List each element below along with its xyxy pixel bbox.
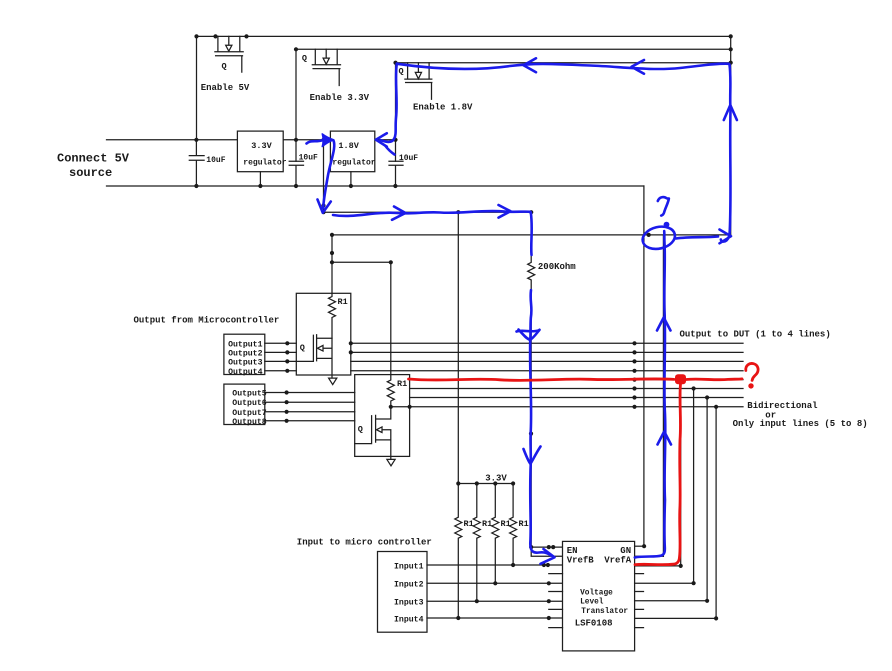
pin stubs U3 left: [549, 574, 563, 628]
node upper block edge junctions: [349, 341, 353, 345]
svg-text:Bidirectional: Bidirectional: [747, 401, 818, 411]
wire output8 line left: [265, 420, 355, 422]
wire line5 right: [410, 379, 743, 381]
svg-text:regulator: regulator: [332, 159, 375, 168]
resistor R1 pullup b: [473, 484, 480, 602]
svg-text:10uF: 10uF: [299, 153, 318, 162]
wire line5 drop: [680, 380, 682, 566]
wire output6 line left: [265, 401, 355, 403]
svg-text:regulator: regulator: [243, 159, 286, 168]
wire node row y=235: [332, 234, 731, 236]
wire output4 line right to DUT: [351, 370, 743, 372]
wire rail3 drop to cap C3: [395, 63, 397, 162]
svg-text:Output1: Output1: [228, 340, 262, 349]
pin stubs U3 right: [635, 574, 644, 628]
svg-text:Input to micro controller: Input to micro controller: [297, 538, 432, 548]
wire right vertical joining rails: [730, 36, 732, 235]
node row y=235 junctions: [330, 233, 334, 237]
annotation blue trace VrefA riser: [635, 231, 666, 558]
svg-text:Output to DUT (1 to 4 lines): Output to DUT (1 to 4 lines): [680, 330, 831, 340]
node GN junction: [642, 544, 646, 548]
wire rail1 (enable 5V net): [197, 35, 731, 37]
node 3.3V pullup rail junctions: [456, 481, 460, 485]
wire drop to R1 lower block: [390, 262, 392, 380]
svg-text:Voltage: Voltage: [580, 589, 613, 597]
node pullup-input junctions: [511, 563, 515, 567]
wire output1 line left: [265, 342, 297, 344]
svg-text:1.8V: 1.8V: [338, 141, 359, 151]
annotation blue trace down right side: [721, 65, 731, 242]
transistor Q1 pass FET: [215, 36, 243, 72]
resistor R1 pullup a: [455, 484, 462, 619]
wire 3.3V drop to node row: [323, 140, 325, 212]
ground symbol (lower block): [387, 459, 395, 465]
resistor R1 (upper block): [329, 293, 336, 338]
regulator U2 1.8V: [330, 131, 374, 172]
node EN junctions: [529, 545, 533, 549]
wire VrefA riser: [662, 235, 664, 556]
annotation blue trace enable1.8 drop and left arrow: [381, 64, 397, 142]
svg-text:Enable 1.8V: Enable 1.8V: [413, 103, 473, 113]
svg-text:source: source: [69, 166, 112, 180]
svg-text:LSF0108: LSF0108: [575, 618, 613, 628]
annotation blue trace along rail3: [397, 64, 729, 69]
annotation blue question mark: [658, 197, 669, 215]
box microcontroller inputs: [378, 552, 428, 633]
svg-text:R1: R1: [397, 379, 407, 389]
svg-text:Enable 3.3V: Enable 3.3V: [310, 93, 370, 103]
wire VrefA pin: [635, 555, 664, 557]
wire U3 right pin row3: [635, 565, 681, 567]
wire rail2 drop to cap C2: [295, 49, 297, 161]
svg-text:R1: R1: [519, 519, 529, 529]
svg-text:Input3: Input3: [394, 599, 424, 608]
wire output4 line left: [265, 370, 297, 372]
wire output3 line left: [265, 360, 297, 362]
wire 5V input rail: [107, 139, 238, 141]
wire rail3 (enable 1.8V net): [396, 62, 731, 64]
wire node drop x=332: [331, 235, 333, 297]
svg-text:Q: Q: [222, 62, 227, 72]
annotation red junction blob: [675, 374, 686, 384]
svg-text:Output4: Output4: [228, 368, 262, 377]
wire rail1 drop to 5V rail: [196, 36, 198, 139]
annotation red trace line5: [409, 379, 675, 381]
wire output5 line left: [265, 392, 355, 394]
node row y=212 junctions: [321, 203, 325, 207]
svg-text:10uF: 10uF: [399, 154, 418, 163]
wire rail2 (enable 3.3V net): [296, 48, 731, 50]
node 5V rail junctions: [194, 138, 198, 142]
wire line6 right: [410, 388, 743, 390]
node input pin junctions: [542, 563, 546, 567]
block box Q5/R1 lower: [355, 375, 410, 457]
svg-text:Output6: Output6: [232, 399, 266, 408]
svg-text:Q: Q: [300, 343, 305, 353]
wire reg1 output: [283, 139, 330, 141]
svg-text:Output7: Output7: [232, 409, 266, 418]
wire line8 drop: [715, 407, 717, 619]
wire node row y=212: [324, 211, 532, 213]
svg-text:VrefA: VrefA: [604, 556, 632, 566]
svg-text:Output8: Output8: [232, 418, 266, 427]
capacitor C2 10uF: [289, 161, 303, 186]
node output lines left junctions: [285, 341, 289, 345]
capacitor C3 10uF: [389, 161, 403, 186]
svg-text:Output2: Output2: [228, 349, 262, 358]
node line5-8 junctions: [632, 378, 636, 382]
wire input3: [427, 600, 563, 602]
svg-text:3.3V: 3.3V: [251, 141, 272, 151]
wire output1 line right to DUT: [351, 342, 743, 344]
svg-text:Only input lines (5 to 8): Only input lines (5 to 8): [733, 419, 868, 429]
wire U3 right pin row5: [635, 582, 694, 584]
wire output2 line left: [265, 351, 297, 353]
box microcontroller outputs 5-8: [224, 384, 265, 424]
wire input4: [427, 617, 563, 619]
node output5-8 left junctions: [285, 390, 289, 394]
transistor Q3 pass FET: [405, 63, 432, 99]
block box Q4/R1 upper: [296, 293, 351, 375]
annotation blue arrow reg1 to reg2: [307, 140, 323, 143]
wire output2 line right to DUT: [351, 351, 743, 353]
svg-text:Output from Microcontroller: Output from Microcontroller: [134, 316, 280, 326]
wire input2: [427, 582, 563, 584]
svg-text:R1: R1: [338, 297, 348, 307]
wire branch y=262: [332, 261, 391, 263]
svg-text:Output5: Output5: [232, 390, 266, 399]
svg-text:Input4: Input4: [394, 616, 424, 625]
wire line7 right: [410, 397, 743, 399]
annotation red trace drop to U3: [635, 384, 681, 565]
wire reg2 output: [375, 139, 396, 141]
transistor Q5 NMOS: [355, 407, 391, 460]
regulator U1 3.3V: [237, 131, 283, 172]
wire 3.3V pullup rail: [458, 483, 513, 485]
wire ground drop to GN: [643, 186, 645, 546]
annotation blue trace down 200K to VrefB: [529, 213, 533, 256]
transistor Q2 pass FET: [312, 49, 340, 85]
wire ground rail: [107, 185, 644, 187]
annotation red question mark: [746, 363, 758, 380]
node ground rail junctions: [194, 184, 198, 188]
wire output7 line left: [265, 411, 355, 413]
capacitor C1 10uF: [189, 140, 204, 186]
svg-text:Q: Q: [399, 67, 404, 77]
svg-text:Connect 5V: Connect 5V: [57, 152, 130, 166]
svg-text:Input1: Input1: [394, 562, 424, 571]
resistor R1 (lower block): [387, 375, 394, 407]
svg-text:R1: R1: [501, 519, 511, 529]
svg-text:Level: Level: [580, 598, 604, 606]
wire line7 drop: [706, 398, 708, 601]
svg-text:Output3: Output3: [228, 358, 262, 367]
svg-text:R1: R1: [482, 519, 492, 529]
svg-text:Input2: Input2: [394, 581, 424, 590]
node rail3 junctions: [393, 61, 397, 65]
node x=332 branch junctions: [330, 251, 334, 255]
svg-text:R1: R1: [464, 519, 474, 529]
svg-text:VrefB: VrefB: [567, 556, 595, 566]
wire GN pin: [635, 545, 645, 547]
wire U3 right pin row7: [635, 600, 708, 602]
wire output3 line right to DUT: [351, 360, 743, 362]
wire input1: [427, 564, 563, 566]
svg-text:Translator: Translator: [581, 608, 628, 616]
annotation blue node question circle: [640, 224, 677, 252]
annotation blue trace down from reg2 input: [323, 141, 334, 209]
wire R1 lower to bus: [391, 406, 410, 408]
node U3 right pin junctions: [679, 564, 683, 568]
wire pullup feed drop x=458: [457, 212, 459, 483]
node output lines right junctions: [632, 341, 636, 345]
svg-text:3.3V: 3.3V: [485, 474, 507, 484]
transistor Q4 NMOS: [296, 335, 332, 378]
box U3 LSF0108: [563, 541, 635, 651]
node rail2 junctions: [294, 47, 298, 51]
resistor 200Kohm: [528, 212, 563, 556]
annotation blue arrow node to corner: [676, 237, 718, 239]
annotation blue trace along y=213: [333, 211, 531, 216]
svg-text:200Kohm: 200Kohm: [538, 262, 576, 272]
wire EN tap: [531, 546, 562, 548]
ground symbol (upper block): [329, 378, 337, 385]
wire line6 drop: [693, 389, 695, 584]
svg-text:Enable 5V: Enable 5V: [201, 83, 250, 93]
wire line8 right: [410, 406, 743, 408]
node stray on 200K vertical: [529, 432, 533, 436]
svg-text:Q: Q: [302, 54, 307, 64]
wire U3 right pin row9: [635, 617, 717, 619]
resistor R1 pullup d: [510, 484, 517, 566]
resistor R1 pullup c: [492, 484, 499, 584]
node R1 lower junctions: [389, 405, 393, 409]
box microcontroller outputs 1-4: [224, 334, 265, 374]
node rail1 junctions: [194, 34, 198, 38]
svg-text:Q: Q: [358, 425, 363, 435]
svg-text:10uF: 10uF: [206, 156, 225, 165]
